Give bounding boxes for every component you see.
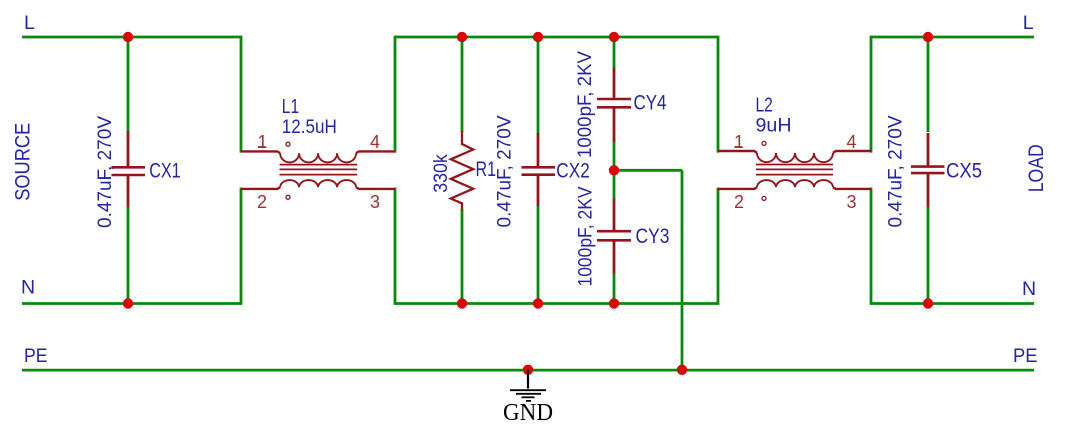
svg-text:SOURCE: SOURCE <box>12 123 35 201</box>
svg-text:L2: L2 <box>756 95 773 117</box>
svg-text:2: 2 <box>734 192 744 212</box>
svg-text:PE: PE <box>24 345 48 367</box>
svg-text:0.47uF, 270V: 0.47uF, 270V <box>885 116 907 228</box>
svg-text:1: 1 <box>258 132 268 152</box>
svg-text:3: 3 <box>370 192 380 212</box>
svg-text:0.47uF, 270V: 0.47uF, 270V <box>494 116 516 228</box>
svg-text:L1: L1 <box>282 96 299 118</box>
svg-text:N: N <box>21 277 35 299</box>
svg-text:LOAD: LOAD <box>1025 144 1048 192</box>
svg-text:PE: PE <box>1013 345 1038 367</box>
svg-text:CY3: CY3 <box>636 225 670 248</box>
svg-text:L: L <box>1023 12 1034 34</box>
svg-text:4: 4 <box>847 132 857 152</box>
svg-text:CY4: CY4 <box>634 91 667 114</box>
svg-text:3: 3 <box>847 192 857 212</box>
svg-text:GND: GND <box>503 400 553 426</box>
svg-text:CX5: CX5 <box>946 159 982 182</box>
svg-text:L: L <box>24 12 35 34</box>
svg-text:2: 2 <box>257 192 267 212</box>
svg-text:CX2: CX2 <box>556 159 590 182</box>
svg-text:1000pF, 2KV: 1000pF, 2KV <box>575 187 597 287</box>
svg-text:N: N <box>1022 278 1036 300</box>
svg-text:0.47uF, 270V: 0.47uF, 270V <box>94 116 116 228</box>
svg-text:4: 4 <box>370 132 380 152</box>
svg-text:1: 1 <box>734 132 744 152</box>
svg-text:CX1: CX1 <box>149 159 181 182</box>
svg-text:12.5uH: 12.5uH <box>282 116 337 138</box>
svg-text:1000pF, 2KV: 1000pF, 2KV <box>574 51 596 158</box>
svg-text:330k: 330k <box>430 154 452 193</box>
svg-text:9uH: 9uH <box>756 115 792 137</box>
